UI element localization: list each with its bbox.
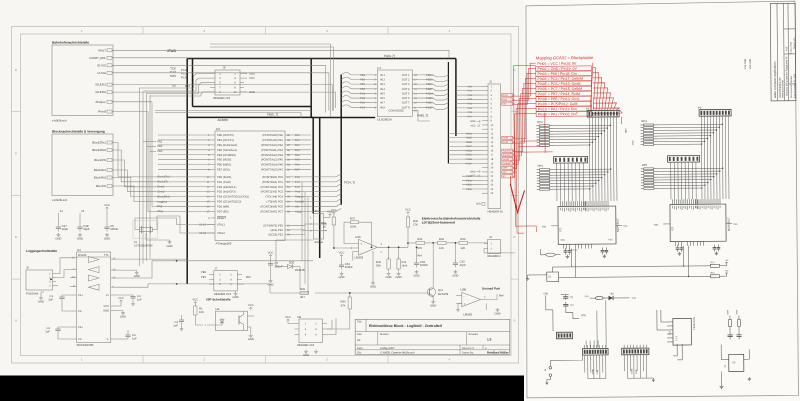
svg-text:RS232: RS232: [78, 254, 87, 257]
bus thick ULN input feeder PC[4..7]: [340, 75, 342, 205]
svg-text:VCC: VCC: [268, 252, 274, 255]
svg-text:IN 2: IN 2: [380, 79, 385, 82]
svg-text:SGND: SGND: [591, 368, 594, 374]
svg-text:XTAL1: XTAL1: [217, 224, 225, 227]
resistor network RP4: [643, 124, 653, 126]
svg-text:PD5 (OC1A/TOSC2): PD5 (OC1A/TOSC2): [217, 201, 241, 204]
svg-text:(PCINT9/A1) PC1: (PCINT9/A1) PC1: [262, 181, 284, 184]
svg-text:RESET: RESET: [217, 217, 226, 220]
svg-text:A: A: [15, 319, 17, 323]
svg-text:/A-SIG: /A-SIG: [97, 71, 106, 75]
svg-text:FAHRT_ERL: FAHRT_ERL: [90, 56, 107, 60]
crystal X1 CSTCE16M7W: [133, 221, 158, 239]
svg-text:PD7 (RD): PD7 (RD): [217, 210, 229, 213]
svg-text:X1: X1: [60, 210, 64, 213]
svg-text:TMS: TMS: [170, 74, 176, 78]
svg-text:OUT 2: OUT 2: [402, 79, 410, 82]
svg-text:PC2: PC2: [295, 186, 301, 189]
svg-text:(PCINT5/A13) PA5: (PCINT5/A13) PA5: [261, 159, 284, 162]
svg-text:Jumper: Jumper: [314, 241, 323, 244]
svg-text:D: D: [15, 68, 17, 72]
power VCC R36: [333, 212, 335, 215]
svg-text:LM393: LM393: [463, 313, 472, 317]
svg-text:PB1 (OC1/T1): PB1 (OC1/T1): [217, 139, 234, 142]
resistor R32 56K: [388, 247, 390, 259]
junction PS2: [50, 278, 52, 280]
svg-text:PB5 (MOSI): PB5 (MOSI): [217, 159, 231, 162]
svg-text:4K7: 4K7: [300, 296, 305, 299]
wire U3B inputs: [456, 295, 462, 297]
junction analog: [388, 246, 390, 248]
svg-text:Size Document Number: Size Document Number: [790, 75, 793, 98]
svg-text:PB7: PB7: [201, 276, 207, 279]
resistor network RP1: [540, 169, 550, 171]
capacitor C1 1uF: [62, 295, 70, 297]
svg-text:VSS: VSS: [733, 223, 738, 226]
svg-text:VDD: VDD: [560, 239, 565, 242]
svg-text:GND: GND: [104, 237, 110, 240]
svg-text:/GLEIS1: /GLEIS1: [95, 83, 106, 87]
svg-text:Pin20 = PA1 / Pin02: RoT: Pin20 = PA1 / Pin02: RoT: [538, 112, 579, 116]
right page title block: [770, 3, 796, 101]
red elbows lower right: [520, 140, 544, 142]
svg-text:IC1: IC1: [559, 227, 562, 232]
wire net drop 2: [304, 192, 306, 284]
red fan wires mapping block to left page labels: [512, 63, 536, 96]
svg-text:47K: 47K: [341, 305, 346, 308]
svg-text:PC5: PC5: [360, 97, 366, 100]
svg-text:GND: GND: [134, 275, 140, 278]
svg-text:e-blk2fk.sch: e-blk2fk.sch: [52, 198, 68, 202]
svg-text:(PCINT10/A2) PC2: (PCINT10/A2) PC2: [261, 186, 284, 189]
svg-text:VSS: VSS: [585, 295, 590, 298]
drawing frame outer border: [12, 27, 519, 364]
wire XTAL1: [135, 218, 215, 230]
svg-text:Elektronikbox Block - Logiktei: Elektronikbox Block - Logikteil - Zentra…: [369, 324, 442, 328]
bus thick JTAG rectangle left side: [192, 59, 194, 107]
wire jack top to CON6: [550, 356, 582, 367]
svg-text:OUT 1: OUT 1: [402, 74, 410, 77]
svg-text:(TCK /A4) PC4: (TCK /A4) PC4: [265, 196, 283, 199]
svg-text:Ref: Ref: [417, 255, 422, 258]
svg-text:PB5: PB5: [360, 79, 365, 82]
svg-text:PBB5: PBB5: [466, 137, 473, 140]
svg-text:IN 8: IN 8: [380, 106, 385, 109]
svg-text:1uF: 1uF: [45, 331, 50, 334]
svg-text:Date:: Date:: [357, 347, 363, 350]
wires RP2 to P1 drops with junctions: [553, 124, 610, 126]
svg-text:10K: 10K: [199, 311, 204, 314]
svg-text:/Pendl: /Pendl: [98, 110, 106, 114]
capacitor C1 C2 group under IC1: [564, 248, 566, 251]
svg-text:GND: GND: [396, 276, 402, 279]
svg-text:BlockRs2: BlockRs2: [94, 176, 106, 180]
bus thick JTAG bottom: [193, 106, 312, 108]
black bottom strip: [0, 376, 524, 401]
bus PA thick top horizontal: [187, 58, 456, 60]
svg-text:Pin08 = PB5 / Pin13: Grn2: Pin08 = PB5 / Pin13: Grn2: [538, 97, 580, 101]
svg-text:HEADER 2X5: HEADER 2X5: [213, 97, 231, 100]
wire R40 to D8: [327, 311, 350, 329]
svg-text:PC3: PC3: [181, 69, 187, 72]
svg-text:PCB7: PCB7: [426, 106, 433, 109]
capacitor C33 47pF: [454, 243, 456, 261]
svg-text:1N4148: 1N4148: [295, 268, 305, 272]
wire U7 output: [418, 107, 448, 109]
svg-text:IN 1: IN 1: [380, 74, 385, 77]
svg-text:FahrtErl: FahrtErl: [295, 201, 304, 204]
svg-text:GND: GND: [414, 274, 420, 277]
wires below CON7: [623, 355, 625, 371]
vertical riser from CON6 to upper area: [596, 310, 598, 347]
svg-text:GND: GND: [386, 276, 392, 279]
svg-text:Pin02 = GND / Pin19: 0V: Pin02 = GND / Pin19: 0V: [537, 67, 577, 71]
oscillator X2 block: [547, 272, 559, 281]
right page border: [524, 1, 799, 398]
wire fan bus to J2 PA pins: [456, 86, 482, 88]
svg-text:(OC1B) PE2: (OC1B) PE2: [268, 234, 283, 237]
svg-text:VCC: VCC: [339, 252, 345, 255]
svg-text:Ref: Ref: [499, 295, 504, 298]
wires regulator: [721, 344, 729, 359]
svg-text:PB2: PB2: [157, 145, 163, 148]
svg-text:R34: R34: [439, 238, 445, 241]
svg-text:PA2: PA2: [468, 94, 473, 97]
svg-text:27K: 27K: [413, 224, 418, 227]
svg-text:V-: V-: [107, 338, 110, 341]
wire U7 output: [418, 89, 448, 91]
svg-text:Title: Title: [357, 321, 362, 324]
ground U4 pin GND: [117, 310, 123, 312]
svg-text:GND: GND: [249, 91, 255, 94]
svg-text:R39: R39: [300, 288, 306, 291]
connector P2 header: [699, 109, 731, 116]
svg-text:Hilt: Hilt: [295, 206, 299, 209]
svg-text:GND: GND: [233, 296, 239, 299]
svg-text:5V0B: 5V0B: [596, 369, 599, 374]
wire logging bus right: [177, 260, 314, 262]
svg-text:(PCINT6/A14) PA6: (PCINT6/A14) PA6: [261, 164, 284, 167]
IC1 internal pin name texture: [560, 208, 562, 210]
svg-text:IN 7: IN 7: [380, 102, 385, 105]
wire JTAG PC3 route: [140, 74, 211, 91]
svg-text:1uF: 1uF: [132, 338, 137, 341]
svg-text:PB3 (TxD1/Ain1): PB3 (TxD1/Ain1): [217, 149, 237, 152]
svg-text:PB6 (MISO): PB6 (MISO): [217, 164, 231, 167]
svg-text:U4: U4: [77, 248, 81, 252]
wires RP3 fan to drops: [658, 167, 723, 170]
wire JTAG PC5 route: [147, 83, 211, 94]
svg-text:12K: 12K: [439, 247, 444, 250]
power VCC at JP1: [329, 214, 331, 217]
svg-text:(PCINT14/A6) PC6: (PCINT14/A6) PC6: [261, 206, 284, 209]
wire X2 SDA long: [559, 276, 707, 277]
svg-text:IN 5: IN 5: [380, 92, 385, 95]
red wires mapping to header P1: [590, 63, 593, 110]
connector CON2 header: [554, 156, 588, 163]
svg-text:IN 4: IN 4: [380, 88, 385, 91]
svg-text:Revision: Revision: [469, 333, 479, 336]
left schematic page background: [0, 0, 524, 376]
bus thick right vertical to header: [455, 59, 457, 137]
wire /Rafipec: [112, 101, 152, 103]
svg-text:X2: X2: [81, 210, 85, 213]
wire PC1: [291, 179, 341, 182]
svg-text:VCC: VCC: [192, 299, 198, 302]
svg-text:J7: J7: [215, 268, 218, 271]
svg-text:J4: J4: [489, 236, 492, 239]
svg-text:PC0: PC0: [295, 176, 301, 179]
capacitor C15: [738, 330, 740, 334]
red mapping row 10: [536, 106, 592, 111]
wire PC2: [291, 184, 341, 187]
capacitor C31 100nF: [341, 255, 343, 258]
svg-text:PD0 (RxD0): PD0 (RxD0): [217, 176, 231, 179]
svg-text:+: +: [464, 302, 466, 306]
red checkmark hook at page gap: [510, 184, 524, 213]
svg-text:X1 19: X1 19: [199, 224, 206, 227]
wires RP1 fan to drops: [554, 168, 611, 170]
svg-text:100nF: 100nF: [345, 265, 353, 269]
svg-text:Pin06 = PC7 / Pin15: GelbM: Pin06 = PC7 / Pin15: GelbM: [538, 87, 583, 91]
svg-text:PB0 (OC0/T0): PB0 (OC0/T0): [217, 134, 234, 137]
svg-text:1K: 1K: [323, 226, 327, 229]
wire opamp minus input: [353, 251, 359, 253]
ground regulator: [720, 372, 722, 385]
svg-text:HEADER 2: HEADER 2: [487, 255, 501, 258]
svg-text:GND: GND: [470, 120, 476, 123]
resistor R36 1K: [333, 215, 335, 217]
IC2 VDD wire left: [663, 223, 670, 225]
svg-text:Gillen Computer Applications: Gillen Computer Applications: [773, 61, 777, 98]
svg-text:Sheet 9 of: Sheet 9 of: [462, 347, 474, 350]
svg-text:PC[4..7]: PC[4..7]: [344, 180, 355, 184]
ground CON7 right: [647, 377, 653, 379]
IC IC2 MCP23017: [670, 204, 726, 242]
svg-text:Block2Ts: Block2Ts: [95, 158, 107, 162]
svg-text:IO ports I/O board for Raspber: IO ports I/O board for Raspberry Pi: [785, 56, 788, 96]
svg-text:PA1: PA1: [295, 139, 300, 142]
wire U7 input: [341, 96, 372, 98]
svg-text:PCB5: PCB5: [466, 154, 473, 157]
svg-text:GND: GND: [120, 315, 126, 318]
svg-text:VCC: VCC: [405, 209, 411, 212]
svg-text:PCB6: PCB6: [426, 102, 433, 105]
svg-text:Pin09 = PC5/Pin12: GeM: Pin09 = PC5/Pin12: GeM: [538, 102, 578, 106]
svg-text:GND: GND: [248, 338, 254, 341]
svg-text:PA1: PA1: [468, 90, 473, 93]
svg-text:VDD: VDD: [581, 314, 586, 317]
svg-text:SGND: SGND: [630, 368, 633, 374]
svg-text:GND: GND: [338, 276, 344, 279]
IC IC1 MCP23017: [558, 206, 616, 244]
svg-text:PBB6: PBB6: [426, 83, 433, 86]
resistor R13 pullup SCL: [711, 264, 720, 267]
svg-text:5V0B: 5V0B: [635, 369, 638, 374]
svg-text:J6: J6: [222, 66, 225, 70]
LED D1: [608, 296, 613, 301]
ground U2: [250, 334, 252, 336]
svg-text:(PCINT1/A9) PA1: (PCINT1/A9) PA1: [262, 139, 283, 142]
wire PC7: [291, 208, 341, 211]
power 5V R14: [726, 273, 728, 276]
resistor R33 12K: [459, 241, 468, 244]
svg-text:47pF: 47pF: [460, 264, 467, 267]
wire upper route 1: [210, 44, 331, 117]
ground X2: [527, 277, 529, 279]
resistor R35 180K: [398, 247, 400, 259]
svg-text:VCC: VCC: [103, 305, 109, 308]
wire U2 out: [248, 315, 255, 317]
svg-text:12K: 12K: [460, 247, 465, 250]
wire Q11 base: [315, 292, 430, 294]
svg-text:VCC: VCC: [249, 77, 255, 80]
svg-text:PA5: PA5: [295, 159, 300, 162]
wire U4 pin9: [117, 284, 177, 287]
svg-text:PB2 (RxD1/Ain0): PB2 (RxD1/Ain0): [217, 144, 237, 147]
resistor network RP3: [644, 168, 654, 170]
svg-text:U3B: U3B: [460, 288, 466, 292]
wire JTAG PC7 route: [150, 92, 210, 96]
resistor R30 27K: [407, 215, 409, 217]
svg-text:PB6: PB6: [201, 271, 207, 274]
svg-text:IN 6: IN 6: [380, 97, 385, 100]
svg-text:GND: GND: [103, 310, 109, 313]
svg-text:CSTCE16M7W: CSTCE16M7W: [134, 245, 153, 248]
red wire to label S2: [512, 65, 537, 177]
svg-text:PB1: PB1: [157, 140, 163, 143]
svg-text:PD4 (OC3A/TOSC1/CKX1): PD4 (OC3A/TOSC1/CKX1): [217, 196, 249, 199]
wire U7 input: [341, 91, 372, 93]
U4 driver triangle 1: [88, 257, 99, 263]
svg-text:GND: GND: [55, 237, 61, 240]
svg-text:Bahnhofsnachrichtstelle: Bahnhofsnachrichtstelle: [52, 41, 89, 45]
wire above MCU 2: [155, 112, 301, 118]
ground D8: [305, 350, 307, 352]
ground U4 pin10: [117, 269, 137, 271]
svg-text:PC1: PC1: [295, 181, 301, 184]
svg-text:Loggingschnittstelle: Loggingschnittstelle: [26, 249, 57, 253]
transistor Q11 BC547B: [432, 243, 434, 288]
svg-text:PE0: PE0: [246, 276, 252, 279]
svg-text:Reinhard Müller: Reinhard Müller: [487, 351, 509, 355]
wire net Pendl from sheet1: [148, 112, 156, 212]
svg-text:ATmega162: ATmega162: [216, 241, 232, 245]
svg-text:TTL: TTL: [104, 254, 109, 257]
pin stubs above CON6: [584, 345, 586, 348]
wire R36 to opamp: [334, 227, 359, 248]
svg-text:100nF: 100nF: [420, 263, 428, 267]
svg-text:PA4: PA4: [468, 102, 473, 105]
svg-text:PCB5: PCB5: [426, 97, 433, 100]
svg-text:B: B: [15, 235, 17, 239]
wire PS2 to U4 pin7: [56, 270, 70, 278]
U4 driver triangle 3: [88, 275, 99, 281]
ground C17: [57, 233, 59, 235]
svg-text:PC5: PC5: [181, 76, 187, 79]
svg-text:R40: R40: [340, 301, 346, 304]
resistor R31 47K: [416, 241, 425, 244]
svg-text:LED: LED: [610, 292, 615, 295]
resistor R34 12K: [438, 241, 447, 244]
svg-text:OUT 3: OUT 3: [402, 83, 410, 86]
resistor R14 pullup SDA: [711, 275, 720, 278]
connector CON6 header: [582, 348, 608, 355]
wire PC4: [291, 194, 341, 197]
resistor R39 4K7: [300, 292, 309, 295]
svg-text:Mapping GCA02 = Blockplatine: Mapping GCA02 = Blockplatine: [536, 55, 594, 60]
svg-text:Pin03 = PA6 / Pin18: Grn: Pin03 = PA6 / Pin18: Grn: [537, 72, 577, 76]
IC2 VSS wire right: [726, 222, 732, 224]
svg-text:PD6 (WR): PD6 (WR): [217, 206, 229, 209]
ground at J6 pin10: [244, 91, 247, 93]
connector CON5 5-pin header: [556, 332, 572, 339]
U4 driver triangle 4: [88, 284, 99, 290]
svg-text:PA4: PA4: [295, 154, 300, 157]
svg-text:OUT 7: OUT 7: [402, 102, 410, 105]
wire U7 output: [418, 98, 448, 100]
svg-text:PA0: PA0: [468, 85, 473, 88]
wire lower-left loop: [546, 299, 553, 331]
svg-text:Pin01 = VCC / Pin20: 5V: Pin01 = VCC / Pin20: 5V: [537, 62, 577, 66]
capacitor C12 lower: [563, 304, 568, 306]
svg-text:56K: 56K: [376, 265, 381, 268]
svg-text:VSS: VSS: [631, 140, 634, 145]
svg-text:FILE: FILE: [785, 46, 788, 51]
capacitor C3 1uF: [117, 295, 133, 297]
red mapping row 4: [536, 76, 592, 81]
wire U7 output: [418, 103, 448, 105]
diode D20 1N4148: [270, 265, 272, 267]
svg-text:GND: GND: [494, 312, 500, 315]
svg-text:Blocknachrichtstelle & Versorg: Blocknachrichtstelle & Versorgung: [52, 130, 105, 134]
connector CON7 header: [622, 348, 649, 355]
svg-text:VSS GND: VSS GND: [744, 59, 747, 70]
svg-text:Date: November 09, 2015: Date: November 09, 2015: [793, 73, 796, 98]
svg-text:HEADER 36: HEADER 36: [488, 211, 504, 214]
ground PS2: [56, 285, 58, 287]
wire PC3: [291, 189, 341, 192]
red mapping row 11: [536, 111, 592, 116]
svg-text:PA3: PA3: [468, 98, 473, 101]
svg-text:PC7: PC7: [360, 106, 366, 109]
wire U7 input: [341, 86, 372, 88]
svg-text:U3: U3: [216, 127, 220, 131]
svg-text:RP2: RP2: [537, 121, 543, 124]
bus PB thick vertical: [186, 59, 188, 285]
ground crystal: [145, 233, 147, 240]
svg-text:P2: P2: [698, 107, 702, 110]
wires CON2 down: [556, 163, 558, 201]
svg-text:Pin07 = PB7 / Pin14: RotM: Pin07 = PB7 / Pin14: RotM: [538, 92, 580, 96]
wire opamp out: [377, 246, 408, 248]
svg-text:RP1: RP1: [538, 165, 544, 168]
U2 transistor: [238, 316, 240, 325]
svg-text:PBB7: PBB7: [426, 88, 433, 91]
wire U4 pin12: [117, 261, 177, 278]
svg-text:1.0: 1.0: [487, 338, 492, 342]
wire U3B out: [481, 294, 498, 300]
svg-text:1uF: 1uF: [48, 299, 53, 302]
svg-text:C1-: C1-: [78, 310, 82, 313]
wire /HALT: [112, 50, 449, 58]
power VCC U4: [120, 300, 122, 303]
svg-text:PB3s: PB3s: [466, 188, 473, 191]
wire R37 feedback: [344, 222, 359, 243]
pin stubs above CON7: [623, 345, 625, 348]
capacitor C4 1uF: [117, 338, 128, 340]
svg-text:Drawn By:: Drawn By:: [462, 351, 474, 354]
